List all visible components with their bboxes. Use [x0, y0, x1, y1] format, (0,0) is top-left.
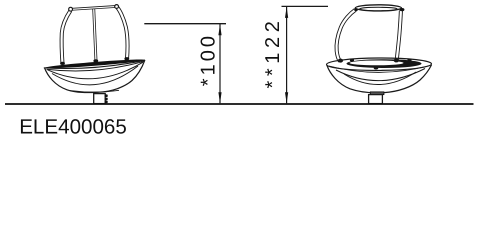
middle pole	[94, 8, 96, 61]
dimension **122 line	[286, 7, 288, 104]
bowl body	[44, 60, 144, 93]
top ring outer	[355, 5, 401, 11]
bowl contour 2	[344, 72, 416, 85]
svg-text:**122: **122	[262, 17, 284, 89]
left leg tube	[337, 10, 356, 61]
dimension **122 bottom arrow	[285, 92, 288, 103]
ground line	[5, 103, 474, 105]
dimension *100 line	[219, 24, 221, 103]
left figure: spinning bowl front view	[44, 5, 145, 104]
rim dark band	[44, 58, 145, 70]
bottom plate arc	[70, 90, 119, 92]
rim lip line 1	[44, 60, 145, 68]
bowl body	[327, 65, 432, 93]
bowl contour 1	[336, 69, 425, 81]
dimension **122 top arrow	[285, 7, 288, 18]
pedestal knuckles	[105, 94, 108, 103]
pedestal	[94, 94, 106, 104]
dimension *100 bottom arrow	[218, 92, 221, 103]
ring end clamps	[354, 8, 404, 11]
rim attachment blobs	[60, 57, 129, 65]
leg attachment blobs	[338, 58, 399, 62]
pedestal cap	[370, 92, 384, 95]
top bar (wheel edge-on)	[69, 5, 119, 11]
dimension *100 top arrow	[218, 24, 221, 35]
rim nubs	[350, 59, 412, 70]
dimension **122 extension line	[282, 5, 329, 7]
dark rim band (filled ring)	[347, 59, 422, 68]
rim lip line 2	[47, 61, 145, 71]
right leg tube	[397, 11, 401, 62]
right figure: spinning bowl side view	[326, 5, 431, 104]
svg-text:ELE400065: ELE400065	[19, 115, 127, 138]
outer lip ellipse	[326, 58, 431, 71]
pedestal	[369, 95, 383, 104]
top ring inner	[360, 7, 398, 10]
bowl contour 2	[52, 66, 138, 85]
bowl contour 1	[48, 62, 144, 79]
dimension *100 extension line	[144, 23, 226, 25]
second lip line	[329, 66, 430, 73]
svg-text:*100: *100	[198, 33, 220, 86]
left leg tube	[62, 11, 71, 64]
right leg tube	[117, 8, 127, 60]
